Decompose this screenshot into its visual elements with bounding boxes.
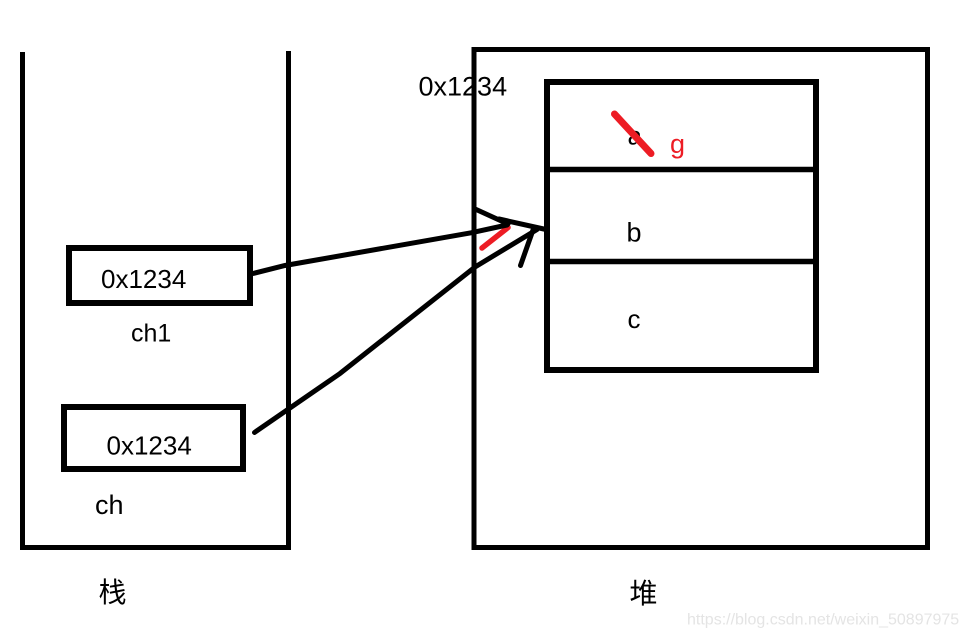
- svg-text:0x1234: 0x1234: [419, 72, 508, 102]
- red cross stroke over a: [615, 114, 652, 154]
- wire arrow2 lower barb: [521, 230, 534, 266]
- svg-text:堆: 堆: [629, 578, 657, 609]
- heap outer rectangle: [474, 50, 928, 548]
- wire arrow2 shaft (ch to b): [255, 230, 538, 433]
- heap inner record rectangle: [547, 82, 816, 370]
- svg-text:0x1234: 0x1234: [107, 431, 192, 461]
- divider b/c: [550, 259, 813, 265]
- svg-text:https://blog.csdn.net/weixin_5: https://blog.csdn.net/weixin_50897975: [687, 612, 959, 629]
- svg-text:b: b: [627, 218, 642, 248]
- svg-text:0x1234: 0x1234: [101, 264, 186, 294]
- wire arrow1 upper barb: [474, 209, 508, 225]
- svg-text:ch1: ch1: [131, 320, 171, 348]
- wire arrow1 tip overshoot stroke: [499, 219, 546, 230]
- box ch (0x1234): [64, 407, 243, 469]
- svg-text:c: c: [628, 304, 641, 334]
- box ch1 (0x1234): [69, 248, 250, 303]
- svg-text:g: g: [670, 129, 685, 159]
- wire arrow1 shaft (ch1 to b): [253, 225, 507, 274]
- red tick near arrow tip: [482, 228, 508, 249]
- svg-text:栈: 栈: [98, 577, 126, 608]
- stack container (open-top U shape): [20, 51, 291, 548]
- svg-text:ch: ch: [95, 490, 124, 520]
- divider a/b: [550, 167, 813, 173]
